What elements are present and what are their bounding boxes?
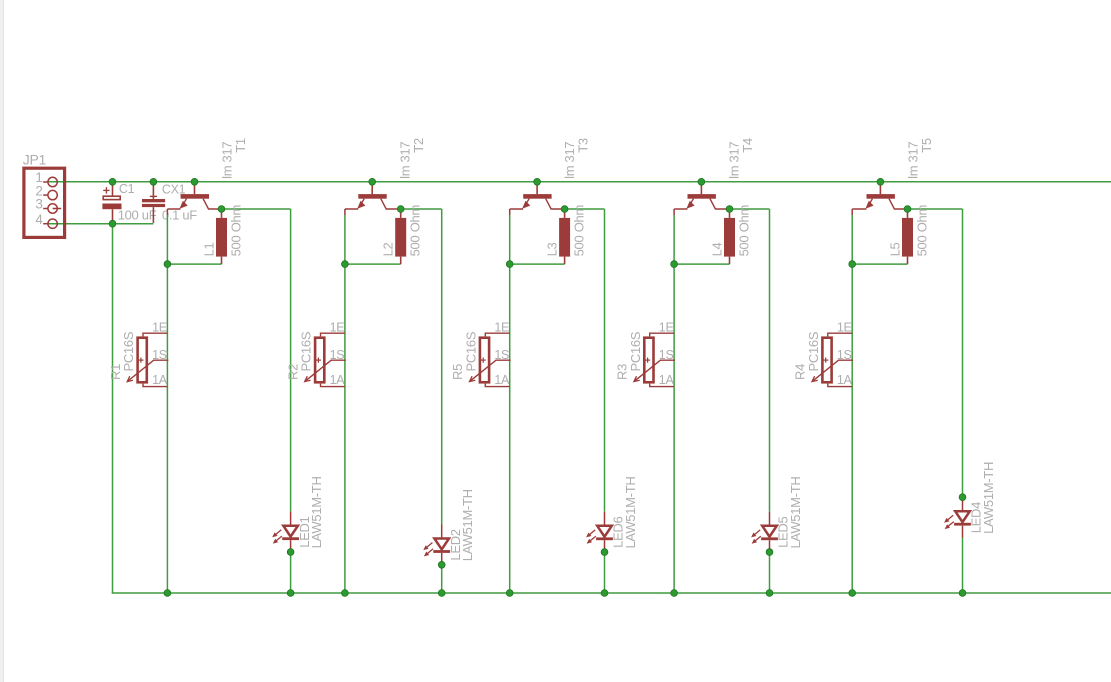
wire: collector column down to LED2 [441,209,443,525]
junction emitter/L1 bottom [164,261,171,268]
cathode bar [596,537,613,540]
wire: L2 bottom to emitter line [345,263,401,265]
emission arrow 1 [276,530,282,535]
svg-text:L2: L2 [381,242,396,256]
collector [203,199,221,209]
junction collector/L5 top [904,206,911,213]
junction collector/L2 top [397,206,404,213]
LED LED4 (LAW51M-TH) [944,497,971,537]
svg-text:LAW51M-TH: LAW51M-TH [460,489,475,561]
svg-text:1E: 1E [494,320,509,334]
wire: collector to LED6 column [565,208,605,210]
connector JP1 [24,168,65,237]
svg-text:100 uF: 100 uF [118,208,157,223]
pin 1A lead [828,384,852,387]
svg-text:1E: 1E [659,320,674,334]
junction emitter/L4 bottom [671,261,678,268]
wiper arrow and pin 1S lead [305,360,346,381]
junction LED5 cathode [766,549,773,556]
emission arrow 2 [948,522,954,527]
svg-text:PC16S: PC16S [463,331,478,371]
junction T5 base on bus [877,178,884,185]
potentiometer R5 (PC16S) [470,333,511,386]
wire: collector column down to LED5 [769,209,771,512]
emitter with arrow [184,199,187,204]
emitter with arrow [870,199,873,204]
wire: collector to LED4 column [908,208,963,210]
junction T2 base on bus [369,178,376,185]
emitter pin stub [344,209,346,215]
junction LED2 cathode [438,561,445,568]
emission arrow 1 [590,530,596,535]
junction emitter line on ground bus [849,590,856,597]
svg-text:PC16S: PC16S [806,331,821,371]
svg-text:L5: L5 [887,242,902,256]
emitter pin stub [166,209,168,215]
plus mark [645,359,650,361]
svg-text:PC16S: PC16S [121,331,136,371]
svg-text:PC16S: PC16S [299,331,314,371]
wire: T5 emitter drop [851,215,853,593]
junction LED1 column on ground bus [287,590,294,597]
wiper arrow and pin 1S lead [812,360,853,381]
svg-text:1E: 1E [152,320,167,334]
svg-text:1E: 1E [837,320,852,334]
junction LED6 column on ground bus [601,590,608,597]
svg-text:T3: T3 [576,138,591,153]
svg-text:500 Ohm: 500 Ohm [915,205,930,256]
wire: bottom ground bus [112,592,1111,594]
wire: top supply bus [48,181,1111,183]
junction emitter line on ground bus [506,590,513,597]
svg-text:3: 3 [35,197,42,212]
wire: LED6 cathode to ground bus [604,552,606,593]
junction emitter line on ground bus [164,590,171,597]
potentiometer R3 (PC16S) [634,333,675,386]
svg-text:T1: T1 [233,138,248,153]
transistor T3 (pnp) [510,182,565,215]
wire: T4 emitter drop [673,215,675,593]
svg-text:1S: 1S [837,348,852,362]
junction emitter line on ground bus [671,590,678,597]
svg-text:1S: 1S [494,348,509,362]
resistor L5 500 Ohm [902,209,913,264]
capacitor C1 (polarized) [102,182,121,224]
svg-text:1A: 1A [494,373,510,387]
junction LED6 cathode [601,549,608,556]
junction emitter line on ground bus [342,590,349,597]
svg-text:1A: 1A [837,373,853,387]
wire: collector column down to LED1 [290,209,292,512]
resistor L1 500 Ohm [216,209,227,264]
potentiometer R2 (PC16S) [305,333,346,386]
pin 1E lead [321,333,345,336]
C1 negative plate [102,204,121,210]
LED LED5 (LAW51M-TH) [751,512,778,552]
junction T4 base on bus [698,178,705,185]
collector [381,199,401,209]
pin 1A lead [485,384,509,387]
junction emitter/L3 bottom [506,261,513,268]
LED LED1 (LAW51M-TH) [272,512,299,552]
junction T1 base on bus [191,178,198,185]
emission arrow 2 [755,536,761,541]
svg-text:C1: C1 [119,182,135,196]
junction LED1 cathode [287,549,294,556]
junction C1 top [109,178,116,185]
resistor L2 500 Ohm [395,209,406,264]
CX1 plate 2 [142,204,165,207]
pin 1A lead [143,384,167,387]
junction C1 bottom [109,220,116,227]
svg-text:LAW51M-TH: LAW51M-TH [981,462,996,534]
emitter pin stub [851,209,853,215]
junction collector/L1 top [218,206,225,213]
wire: T2 emitter drop [344,215,346,593]
junction LED5 column on ground bus [766,590,773,597]
junction LED4 anode [959,494,966,501]
wiper arrow and pin 1S lead [634,360,675,381]
emission arrow 2 [276,536,282,541]
pin 1A lead [650,384,674,387]
svg-text:PC16S: PC16S [628,331,643,371]
wire: ground drop at C1 [112,224,114,593]
transistor T5 (pnp) [852,182,907,215]
junction LED4 column on ground bus [959,590,966,597]
plus mark [481,359,486,361]
transistor T4 (pnp) [674,182,729,215]
resistor L4 500 Ohm [724,209,735,264]
potentiometer R1 (PC16S) [127,333,168,386]
emission arrow 1 [755,530,761,535]
canvas left edge strip [0,0,3,682]
wire: LED2 cathode to ground bus [441,565,443,593]
CX1 top tick [150,195,157,197]
svg-text:500 Ohm: 500 Ohm [572,205,587,256]
pin 1E lead [828,333,852,336]
junction emitter/L2 bottom [342,261,349,268]
junction collector/L3 top [561,206,568,213]
svg-text:JP1: JP1 [23,151,47,167]
potentiometer R4 (PC16S) [812,333,853,386]
emission arrow 1 [948,515,954,520]
svg-text:T5: T5 [919,138,934,153]
plus mark [316,359,321,361]
svg-text:1A: 1A [659,373,675,387]
wire: ground run from JP1 pin4 [48,223,153,225]
svg-text:1S: 1S [152,348,167,362]
svg-text:1E: 1E [330,320,345,334]
CX1 plate 1 [142,199,165,202]
emission arrow 2 [590,536,596,541]
resistor L3 500 Ohm [559,209,570,264]
wire: collector to LED1 column [222,208,291,210]
emitter pin stub [673,209,675,215]
C1 plus sign [103,189,109,191]
wire: L5 bottom to emitter line [852,263,907,265]
svg-text:L3: L3 [544,242,559,256]
cathode bar [761,537,778,540]
emission arrow 1 [427,543,433,548]
cathode bar [433,550,450,553]
svg-text:500 Ohm: 500 Ohm [737,205,752,256]
emitter with arrow [691,199,694,204]
cathode bar [282,537,299,540]
JP1 pin3 right stub [53,208,62,210]
svg-text:L4: L4 [709,242,724,256]
svg-text:4: 4 [35,212,43,227]
wire: LED5 cathode to ground bus [769,552,771,593]
wiper arrow and pin 1S lead [470,360,511,381]
pin 1A lead [321,384,345,387]
cathode bar [954,523,971,526]
plus mark [138,359,143,361]
junction CX1 top [150,178,157,185]
svg-text:LAW51M-TH: LAW51M-TH [788,477,803,549]
wire: L3 bottom to emitter line [510,263,565,265]
LED LED6 (LAW51M-TH) [586,512,613,552]
wire: T1 emitter drop [166,215,168,593]
transistor T1 (pnp) [167,182,221,215]
transistor T2 (pnp) [345,182,401,215]
svg-text:T2: T2 [411,138,426,153]
wire: collector to LED5 column [730,208,770,210]
svg-text:T4: T4 [740,138,755,153]
emitter pin stub [509,209,511,215]
pin 1E lead [650,333,674,336]
wire: LED1 cathode to ground bus [290,552,292,593]
emitter with arrow [527,199,530,204]
svg-text:1S: 1S [659,348,674,362]
svg-text:500 Ohm: 500 Ohm [229,205,244,256]
wire: L1 bottom to emitter line [167,263,221,265]
plus mark [823,359,828,361]
pin 1E lead [485,333,509,336]
wire: L4 bottom to emitter line [674,263,729,265]
svg-text:LAW51M-TH: LAW51M-TH [309,476,324,548]
emission arrow 2 [427,549,433,554]
wire: collector column down to LED6 [604,209,606,512]
wiper arrow and pin 1S lead [127,360,168,381]
svg-text:500 Ohm: 500 Ohm [408,205,423,256]
svg-text:LAW51M-TH: LAW51M-TH [623,477,638,549]
pin 1E lead [143,333,167,336]
collector [546,199,565,209]
C1 positive plate [103,196,120,199]
svg-text:1A: 1A [330,373,346,387]
svg-text:L1: L1 [201,242,216,256]
LED LED2 (LAW51M-TH) [423,525,450,565]
wire: LED4 cathode to ground bus [962,538,964,594]
wire: collector column down to LED4 [962,209,964,497]
capacitor CX1 [142,182,165,223]
svg-text:1S: 1S [330,348,345,362]
junction LED2 column on ground bus [438,590,445,597]
wire: T3 emitter drop [509,215,511,593]
collector [889,199,908,209]
wire: collector to LED2 column [401,208,442,210]
emitter with arrow [362,199,365,204]
junction collector/L4 top [726,206,733,213]
junction T3 base on bus [534,178,541,185]
junction emitter/L5 bottom [849,261,856,268]
collector [710,199,730,209]
svg-text:1A: 1A [152,373,168,387]
